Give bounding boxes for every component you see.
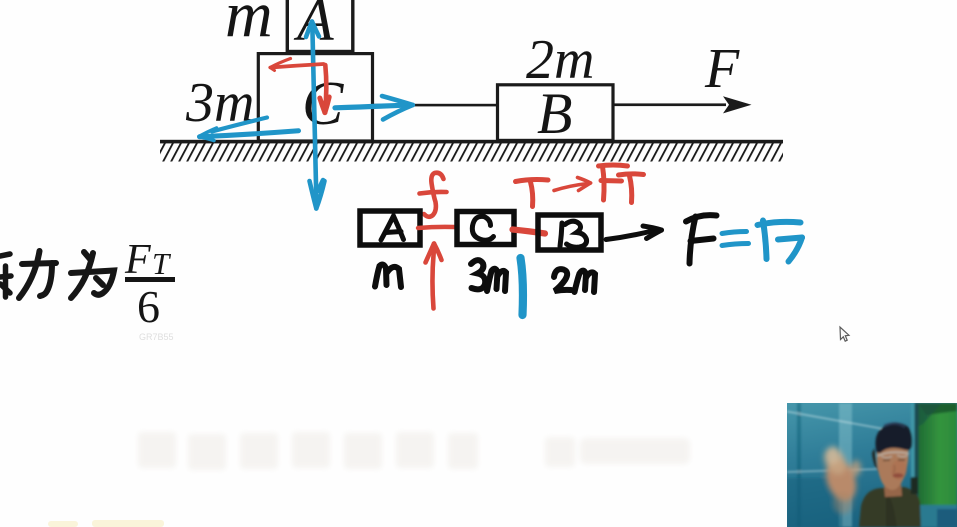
fbd label 2m <box>554 269 595 292</box>
fbd box A <box>360 211 420 245</box>
svg-text:B: B <box>537 81 572 146</box>
svg-text:GR7B55: GR7B55 <box>139 332 174 342</box>
handwritten red f <box>420 173 447 217</box>
person shirt <box>859 487 921 527</box>
fbd red link C-B <box>513 230 546 234</box>
handwritten blue equals <box>722 232 749 246</box>
red down arrow in C <box>320 65 329 113</box>
ground hatching <box>160 143 783 162</box>
below green teal <box>916 505 957 527</box>
cap <box>875 423 912 453</box>
fbd box B <box>538 215 601 250</box>
svg-text:F: F <box>124 237 151 283</box>
fbd letter A <box>381 216 404 240</box>
force arrow F head <box>723 96 752 113</box>
wire rope C to B <box>374 104 498 107</box>
nose mouth <box>893 465 895 473</box>
glass grid line 2 <box>787 469 880 472</box>
ground line <box>160 140 783 144</box>
svg-text:T: T <box>152 246 172 281</box>
person face <box>877 445 909 490</box>
block B <box>498 85 614 141</box>
block A <box>287 0 353 52</box>
faint page watermark <box>138 432 690 470</box>
fbd letter C <box>472 216 493 240</box>
green screen <box>919 403 957 505</box>
glasses <box>877 452 909 456</box>
glass dark lower left <box>787 478 843 527</box>
handwritten blue F7 <box>758 221 803 262</box>
block C <box>258 54 372 141</box>
eyes <box>883 459 905 462</box>
blue vertical double arrow through C <box>306 22 325 209</box>
fbd letter B <box>560 221 587 247</box>
webcam overlay <box>787 403 957 527</box>
raised hand blurred <box>819 444 861 514</box>
bright vertical glass band <box>839 403 852 527</box>
chinese 力 <box>19 251 56 298</box>
teal pole <box>911 403 915 507</box>
svg-text:6: 6 <box>137 281 160 332</box>
chinese partial 察 <box>0 254 11 297</box>
glass grid line 1 <box>787 412 884 430</box>
fbd red link A-C <box>418 227 454 228</box>
bottom edge smudge <box>48 520 164 527</box>
fbd box C <box>457 212 514 245</box>
handwritten red arrow to <box>554 178 591 191</box>
force arrow F line <box>614 103 726 106</box>
fbd label 3m <box>471 260 506 291</box>
person neck <box>884 483 902 497</box>
blue left arrow at ground <box>199 118 299 141</box>
handwritten red T2 <box>619 174 644 203</box>
fbd red up arrow <box>426 244 442 309</box>
handwritten red F <box>599 165 628 200</box>
handwritten black F <box>686 215 717 263</box>
handwritten red T <box>516 180 549 207</box>
mouse cursor <box>840 327 849 341</box>
fbd arrow from B <box>606 226 662 240</box>
red left arrow on C top <box>270 59 324 71</box>
cheek red tint <box>891 460 907 480</box>
hair sideburn <box>872 448 879 472</box>
mic object <box>911 477 918 494</box>
blue right arrow from C <box>335 96 413 120</box>
svg-text:F: F <box>704 38 740 100</box>
chinese 为 <box>71 252 114 298</box>
svg-text:m: m <box>225 0 273 51</box>
fbd label m <box>375 264 401 287</box>
fbd blue normal line <box>521 258 523 315</box>
